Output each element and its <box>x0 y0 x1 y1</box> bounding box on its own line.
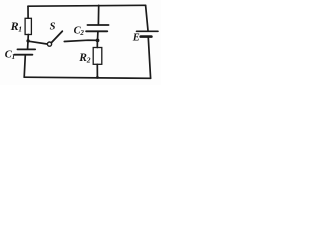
wire R1 bottom lead <box>27 35 29 41</box>
battery E short plate <box>141 35 152 38</box>
wire bottom <box>24 77 150 78</box>
wire C2 to junction <box>97 32 99 41</box>
label R1 <box>10 19 22 33</box>
node junction middle <box>96 39 100 43</box>
svg-text:E: E <box>132 33 140 44</box>
svg-text:R: R <box>10 19 19 33</box>
wire junction to R2 <box>96 40 98 47</box>
resistor R2 body <box>93 48 102 65</box>
switch S blade <box>51 31 62 43</box>
node junction bottom <box>96 76 99 79</box>
node junction below R1 <box>26 39 29 42</box>
svg-text:1: 1 <box>12 53 16 61</box>
wire right lower <box>148 38 150 79</box>
resistor R1 body <box>25 18 31 34</box>
wire junction to C1 <box>27 41 29 49</box>
wire right upper <box>146 5 148 30</box>
label C2 <box>74 26 85 37</box>
wire top to C2 <box>97 5 99 24</box>
label R2 <box>78 52 91 64</box>
svg-text:2: 2 <box>86 55 91 64</box>
wire top <box>28 4 146 7</box>
battery E long plate <box>137 30 159 32</box>
switch S pivot circle <box>47 42 51 46</box>
wire junction to switch <box>28 41 47 44</box>
wire C1 to bottom <box>24 55 25 77</box>
capacitor C1 bottom plate <box>14 54 32 56</box>
svg-text:1: 1 <box>18 25 22 34</box>
label E <box>132 33 140 44</box>
capacitor C2 bottom plate <box>86 30 107 32</box>
capacitor C2 top plate <box>87 24 108 26</box>
label S <box>50 22 56 33</box>
wire switch contact to middle junction <box>64 40 97 41</box>
wire left top lead of R1 <box>27 6 29 18</box>
label C1 <box>5 50 15 61</box>
capacitor C1 top plate <box>17 48 35 50</box>
svg-text:S: S <box>50 22 56 33</box>
wire R2 to bottom <box>96 64 98 77</box>
svg-text:2: 2 <box>79 29 84 37</box>
